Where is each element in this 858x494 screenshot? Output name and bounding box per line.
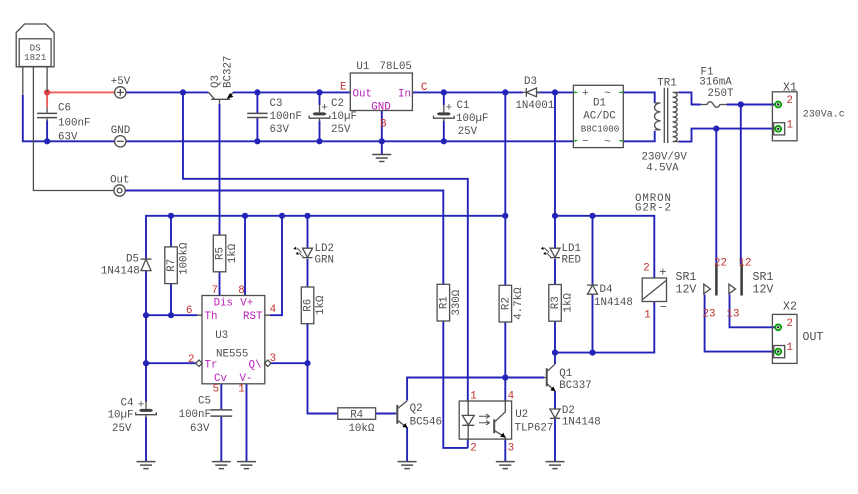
svg-text:U1: U1 xyxy=(356,61,369,73)
svg-text:8: 8 xyxy=(238,285,244,297)
svg-text:12: 12 xyxy=(739,258,752,270)
diode D2 1N4148 xyxy=(550,405,601,429)
svg-text:1N4001: 1N4001 xyxy=(515,100,554,112)
wire C3 leads xyxy=(256,92,258,141)
svg-text:V+: V+ xyxy=(240,298,253,310)
svg-text:4.5VA: 4.5VA xyxy=(646,163,679,175)
svg-text:R5: R5 xyxy=(215,247,227,260)
svg-text:4.7kΩ: 4.7kΩ xyxy=(513,287,525,320)
svg-text:~: ~ xyxy=(604,137,610,149)
wire 555 pin 3 output xyxy=(270,362,308,364)
wire Q2 collector to Q1 base row xyxy=(407,378,544,401)
svg-text:B8C1000: B8C1000 xyxy=(581,123,620,134)
svg-text:12V: 12V xyxy=(676,283,697,296)
svg-text:25V: 25V xyxy=(331,124,351,136)
svg-text:U3: U3 xyxy=(215,330,228,342)
wire Q1 collector xyxy=(554,353,556,364)
svg-text:1N4148: 1N4148 xyxy=(101,266,140,278)
regulator U1 78L05 xyxy=(340,61,428,130)
svg-text:+: + xyxy=(138,400,145,412)
svg-text:−: − xyxy=(582,136,589,148)
svg-text:TLP627: TLP627 xyxy=(515,423,554,435)
wire D4 leads xyxy=(592,216,594,353)
svg-text:−: − xyxy=(660,301,667,315)
svg-text:1N4148: 1N4148 xyxy=(562,417,601,429)
node junctions on +5V rail xyxy=(180,89,323,95)
svg-text:78L05: 78L05 xyxy=(380,61,412,73)
svg-text:22: 22 xyxy=(714,258,727,270)
svg-text:C: C xyxy=(421,82,428,94)
svg-text:AC/DC: AC/DC xyxy=(583,111,616,123)
svg-text:X2: X2 xyxy=(783,301,797,314)
svg-text:1kΩ: 1kΩ xyxy=(227,243,239,263)
wire 12V rail left segment with D5/Th/Tr/C4 chain xyxy=(146,216,505,462)
transistor Q3 xyxy=(209,56,235,104)
node junctions on GND row xyxy=(44,138,447,144)
svg-text:GRN: GRN xyxy=(315,254,334,266)
svg-text:D2: D2 xyxy=(562,405,575,417)
svg-text:Out: Out xyxy=(110,174,129,186)
svg-text:10µF: 10µF xyxy=(331,111,357,123)
svg-text:+5V: +5V xyxy=(111,76,131,88)
svg-text:100nF: 100nF xyxy=(58,118,90,130)
svg-text:D5: D5 xyxy=(126,254,139,266)
capacitor C5 xyxy=(179,395,233,435)
svg-text:G2R-2: G2R-2 xyxy=(635,202,672,214)
wire AC line to relay contact 12 xyxy=(740,105,742,265)
node junctions relay coil return row xyxy=(552,350,596,356)
wire LD2 / R6 chain to 555 pin3 junction xyxy=(307,216,309,363)
resistor R5 xyxy=(213,235,239,272)
svg-text:330Ω: 330Ω xyxy=(451,289,463,315)
svg-text:100nF: 100nF xyxy=(179,409,211,421)
node junction Q1 base row xyxy=(502,374,508,380)
svg-text:BC327: BC327 xyxy=(223,56,235,88)
ground at D2 xyxy=(546,462,565,469)
svg-text:1: 1 xyxy=(787,342,793,354)
svg-text:2: 2 xyxy=(188,354,194,366)
svg-text:GND: GND xyxy=(371,102,390,114)
ground at opto pin 3 xyxy=(496,462,515,469)
svg-text:2: 2 xyxy=(470,442,476,454)
capacitor C3 xyxy=(247,98,302,136)
ground at U1 xyxy=(372,155,391,162)
svg-text:C1: C1 xyxy=(457,100,470,112)
capacitor C4 xyxy=(108,397,157,435)
sensor DS1821 xyxy=(16,24,114,191)
svg-text:+: + xyxy=(321,103,328,115)
relay contact SR1 22-23 xyxy=(676,258,727,321)
ground at 555 pin 1 xyxy=(237,462,256,469)
svg-text:1: 1 xyxy=(787,119,793,131)
svg-text:+: + xyxy=(446,103,453,115)
wire Q1 emitter through D2 to ground xyxy=(554,391,556,462)
wire transformer primary bottom to X1 pin 1 xyxy=(679,129,776,142)
diode D4 1N4148 xyxy=(587,284,633,309)
svg-text:E: E xyxy=(340,82,346,94)
svg-text:1: 1 xyxy=(470,391,476,403)
wire 555 pin 1 to ground xyxy=(246,384,248,462)
wire red +5V segment from DS1821 pin3 to +5V port xyxy=(47,92,115,107)
svg-text:LD1: LD1 xyxy=(562,243,581,255)
svg-text:Th: Th xyxy=(205,311,218,323)
svg-text:316mA: 316mA xyxy=(699,77,732,89)
svg-text:C4: C4 xyxy=(121,397,134,409)
capacitor C6 xyxy=(37,103,90,144)
wire Q2 emitter to ground xyxy=(406,427,408,462)
resistor R2 xyxy=(499,285,525,322)
svg-text:TR1: TR1 xyxy=(657,77,676,89)
svg-text:25V: 25V xyxy=(458,126,478,138)
wire D1 to transformer secondary xyxy=(623,92,654,141)
wire 555 pin 8 V+ to rail xyxy=(244,216,246,296)
led LD2 GRN xyxy=(293,243,334,266)
svg-text:Q\: Q\ xyxy=(249,360,262,372)
svg-text:+: + xyxy=(582,88,589,100)
svg-text:X1: X1 xyxy=(783,81,797,94)
svg-text:1kΩ: 1kΩ xyxy=(315,295,327,315)
wire C6 bottom lead xyxy=(46,121,48,142)
svg-text:C6: C6 xyxy=(58,103,71,115)
optocoupler U2 TLP627 xyxy=(459,391,553,455)
svg-text:R6: R6 xyxy=(303,299,315,312)
svg-text:2: 2 xyxy=(787,95,793,107)
svg-text:R1: R1 xyxy=(438,296,450,309)
wire LD1 / R3 chain xyxy=(554,216,556,353)
node junctions on 12V rail xyxy=(168,213,596,219)
svg-text:63V: 63V xyxy=(58,132,78,144)
svg-text:1: 1 xyxy=(238,383,244,395)
ground at 555 pin 5 xyxy=(212,462,231,469)
resistor R3 xyxy=(549,285,575,322)
svg-text:100µF: 100µF xyxy=(456,113,488,125)
svg-text:C3: C3 xyxy=(270,98,283,110)
svg-text:C5: C5 xyxy=(198,395,211,407)
svg-text:Q3: Q3 xyxy=(210,75,222,88)
connector X1 xyxy=(772,81,844,140)
port GND xyxy=(111,125,130,147)
wire Out row from Out port to R1 and opto pin 2 xyxy=(125,191,468,448)
svg-text:13: 13 xyxy=(727,309,740,321)
wire Q3 base to R5 xyxy=(219,104,221,235)
svg-text:Dis: Dis xyxy=(214,298,233,310)
svg-text:4: 4 xyxy=(508,391,514,403)
svg-text:R3: R3 xyxy=(550,296,562,309)
svg-text:R2: R2 xyxy=(500,297,512,310)
node junctions on Th row xyxy=(143,312,174,318)
svg-text:BC337: BC337 xyxy=(559,380,591,392)
resistor R7 xyxy=(165,242,191,284)
svg-text:SR1: SR1 xyxy=(753,271,774,284)
svg-text:2: 2 xyxy=(787,318,793,330)
wire C1 leads xyxy=(443,92,445,141)
svg-text:63V: 63V xyxy=(190,423,210,435)
svg-text:Tr: Tr xyxy=(205,360,218,372)
wire 555 pin 4 RST to rail xyxy=(270,216,282,315)
svg-text:C2: C2 xyxy=(331,98,344,110)
ground at Q2 xyxy=(398,462,417,469)
svg-text:4: 4 xyxy=(270,304,276,316)
port +5V xyxy=(111,76,131,98)
svg-text:In: In xyxy=(398,88,411,100)
node red junction at DS1821 Vdd xyxy=(44,89,50,95)
svg-text:1kΩ: 1kΩ xyxy=(563,293,575,313)
svg-text:7: 7 xyxy=(212,285,218,297)
wire contact 23 to X2 pin 1 xyxy=(705,295,776,352)
relay contact SR1 12-13 xyxy=(727,258,774,321)
node junctions on unregulated DC line xyxy=(441,89,558,95)
transformer TR1 xyxy=(642,77,688,174)
svg-text:BC546: BC546 xyxy=(410,417,442,429)
svg-text:250T: 250T xyxy=(708,88,734,100)
ground at C4 xyxy=(137,462,156,469)
bridge rectifier D1 xyxy=(573,85,623,148)
wire relay coil pin 1 to Q1 collector row xyxy=(555,302,654,353)
svg-text:LD2: LD2 xyxy=(315,243,334,255)
svg-text:Q1: Q1 xyxy=(559,368,572,380)
diode D5 1N4148 xyxy=(101,254,152,278)
relay coil SR1 xyxy=(642,262,667,321)
svg-text:OUT: OUT xyxy=(803,331,824,344)
svg-text:R7: R7 xyxy=(166,259,178,272)
relay label OMRON G2R-2 xyxy=(635,193,672,215)
svg-text:2: 2 xyxy=(643,262,649,274)
svg-text:B: B xyxy=(380,118,387,130)
transistor Q1 xyxy=(544,364,591,392)
svg-text:12V: 12V xyxy=(753,283,774,296)
fuse F1 xyxy=(699,66,734,107)
svg-text:10kΩ: 10kΩ xyxy=(348,423,374,435)
diode D3 1N4001 xyxy=(515,76,554,112)
wire transformer primary to fuse and X1 pin 2 xyxy=(679,92,776,104)
led LD1 RED xyxy=(541,243,581,266)
resistor R4 xyxy=(338,408,376,435)
svg-text:+: + xyxy=(659,266,666,280)
wire AC line to relay contact 22 xyxy=(715,129,717,264)
svg-text:63V: 63V xyxy=(270,124,290,136)
node junctions on Tr row and 555 output xyxy=(143,360,311,366)
svg-text:6: 6 xyxy=(186,305,192,317)
svg-text:D1: D1 xyxy=(593,98,606,110)
svg-text:GND: GND xyxy=(111,125,130,137)
wire 555 pin 5 through C5 to ground xyxy=(220,384,222,462)
svg-text:Q2: Q2 xyxy=(410,403,423,415)
capacitor C2 xyxy=(309,98,357,136)
connector X2 xyxy=(772,301,823,364)
wire pin3 junction down to R4 and Q2 base xyxy=(308,363,396,413)
wire D3 anode down to right rail segment xyxy=(554,92,556,215)
wire +5V drop to opto LED anode row xyxy=(183,92,468,400)
node junctions AC lines xyxy=(713,101,744,131)
svg-text:RED: RED xyxy=(562,254,581,266)
wire R7 chain xyxy=(170,216,172,315)
wire R5 bottom to 555 pin 7 xyxy=(219,272,221,296)
svg-text:230Va.c: 230Va.c xyxy=(803,110,845,121)
resistor R1 xyxy=(437,284,463,321)
wire contact 13 to X2 pin 2 xyxy=(730,295,777,328)
wire U1 GND pin to ground xyxy=(381,111,383,155)
svg-text:U2: U2 xyxy=(515,409,528,421)
svg-text:Out: Out xyxy=(353,88,372,100)
wire C2 leads xyxy=(319,92,321,141)
wire U1 In to D3 and D1 + xyxy=(412,91,573,93)
svg-text:NE555: NE555 xyxy=(216,349,248,361)
svg-text:3: 3 xyxy=(508,442,514,454)
svg-text:D3: D3 xyxy=(524,76,537,88)
wire +5V rail from +5V port to U1 Out (interrupted by Q3) xyxy=(126,91,350,93)
svg-text:RST: RST xyxy=(243,311,263,323)
svg-text:1821: 1821 xyxy=(24,52,47,63)
svg-text:25V: 25V xyxy=(112,423,132,435)
capacitor C1 xyxy=(434,100,489,138)
svg-text:230V/9V: 230V/9V xyxy=(642,151,688,163)
svg-text:R4: R4 xyxy=(350,409,363,421)
timer U3 NE555 xyxy=(186,285,276,395)
port Out xyxy=(110,174,129,196)
wire GND row from DS1821 pin1 through GND port to D1 - xyxy=(23,95,574,141)
svg-text:5: 5 xyxy=(213,383,219,395)
svg-text:100nF: 100nF xyxy=(270,111,302,123)
svg-text:SR1: SR1 xyxy=(676,271,697,284)
svg-text:D4: D4 xyxy=(600,284,613,296)
svg-text:1N4148: 1N4148 xyxy=(594,297,633,309)
wire unregulated DC drop to rail (left segment) and R2 chain xyxy=(504,92,506,461)
svg-text:10µF: 10µF xyxy=(108,409,134,421)
resistor R6 xyxy=(301,287,327,324)
transistor Q2 xyxy=(396,401,442,429)
svg-text:1: 1 xyxy=(644,310,650,322)
svg-text:100kΩ: 100kΩ xyxy=(179,242,191,275)
svg-text:23: 23 xyxy=(703,309,716,321)
wire 12V rail right segment to relay coil pin 2 xyxy=(555,216,654,278)
